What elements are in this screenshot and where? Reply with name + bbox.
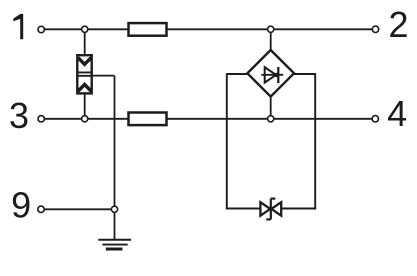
terminal label 1 xyxy=(13,14,23,39)
bridge diode lead xyxy=(261,74,283,76)
wire loop right horizontal xyxy=(292,73,315,75)
junction on line 3 at bridge xyxy=(268,116,274,122)
terminal circle 4 xyxy=(372,116,378,122)
wire loop left horizontal xyxy=(227,73,249,75)
TVS bar bottom hook xyxy=(266,218,271,220)
gas discharge tube center electrode line A xyxy=(76,71,93,73)
TVS cathode bar xyxy=(270,199,272,220)
wire line 1 (terminal 1 to terminal 2) xyxy=(41,28,376,30)
gas discharge tube F1 body xyxy=(77,55,91,93)
gas discharge tube top arrow xyxy=(78,58,91,65)
wire bridge bottom lead xyxy=(270,96,272,119)
svg-text:3: 3 xyxy=(9,95,29,136)
junction on line 9 at ground tap xyxy=(111,206,117,212)
junction on line 1 at GDT xyxy=(82,26,88,32)
wire GDT center tap horizontal xyxy=(93,75,115,77)
junction on line 1 at bridge xyxy=(268,26,274,32)
wire GDT bottom lead xyxy=(84,93,86,119)
svg-text:2: 2 xyxy=(388,4,408,45)
terminal circle 9 xyxy=(38,206,44,212)
svg-text:4: 4 xyxy=(387,93,407,134)
svg-text:9: 9 xyxy=(11,185,31,226)
wire line 3 (terminal 3 to terminal 4) xyxy=(41,118,375,120)
resistor R1 xyxy=(129,23,167,36)
TVS bar top hook xyxy=(271,198,276,200)
TVS suppressor diode V2 left triangle xyxy=(260,202,270,216)
wire loop bottom left xyxy=(226,208,261,210)
wire center tap vertical to ground xyxy=(114,76,116,240)
wire bridge top lead xyxy=(270,29,272,51)
gas discharge tube center electrode line B xyxy=(76,75,93,77)
wire loop bottom right xyxy=(281,208,316,210)
terminal circle 2 xyxy=(372,26,378,32)
junction on line 3 at GDT xyxy=(82,116,88,122)
bridge diode triangle xyxy=(265,67,276,82)
wire loop right vertical xyxy=(314,73,316,209)
terminal circle 1 xyxy=(38,26,44,32)
resistor R2 xyxy=(129,113,167,126)
terminal circle 3 xyxy=(38,116,44,122)
ground symbol xyxy=(98,240,131,249)
bridge diode apex joint xyxy=(274,73,278,77)
wire GDT top lead xyxy=(84,29,86,56)
bridge rectifier V1 diamond xyxy=(247,50,294,97)
wire line 9 (terminal 9 to ground junction) xyxy=(41,208,115,210)
gas discharge tube bottom arrow xyxy=(78,85,91,92)
bridge diode cathode bar xyxy=(277,67,279,83)
TVS suppressor diode V2 right triangle xyxy=(271,202,281,216)
wire loop left vertical xyxy=(226,73,228,209)
